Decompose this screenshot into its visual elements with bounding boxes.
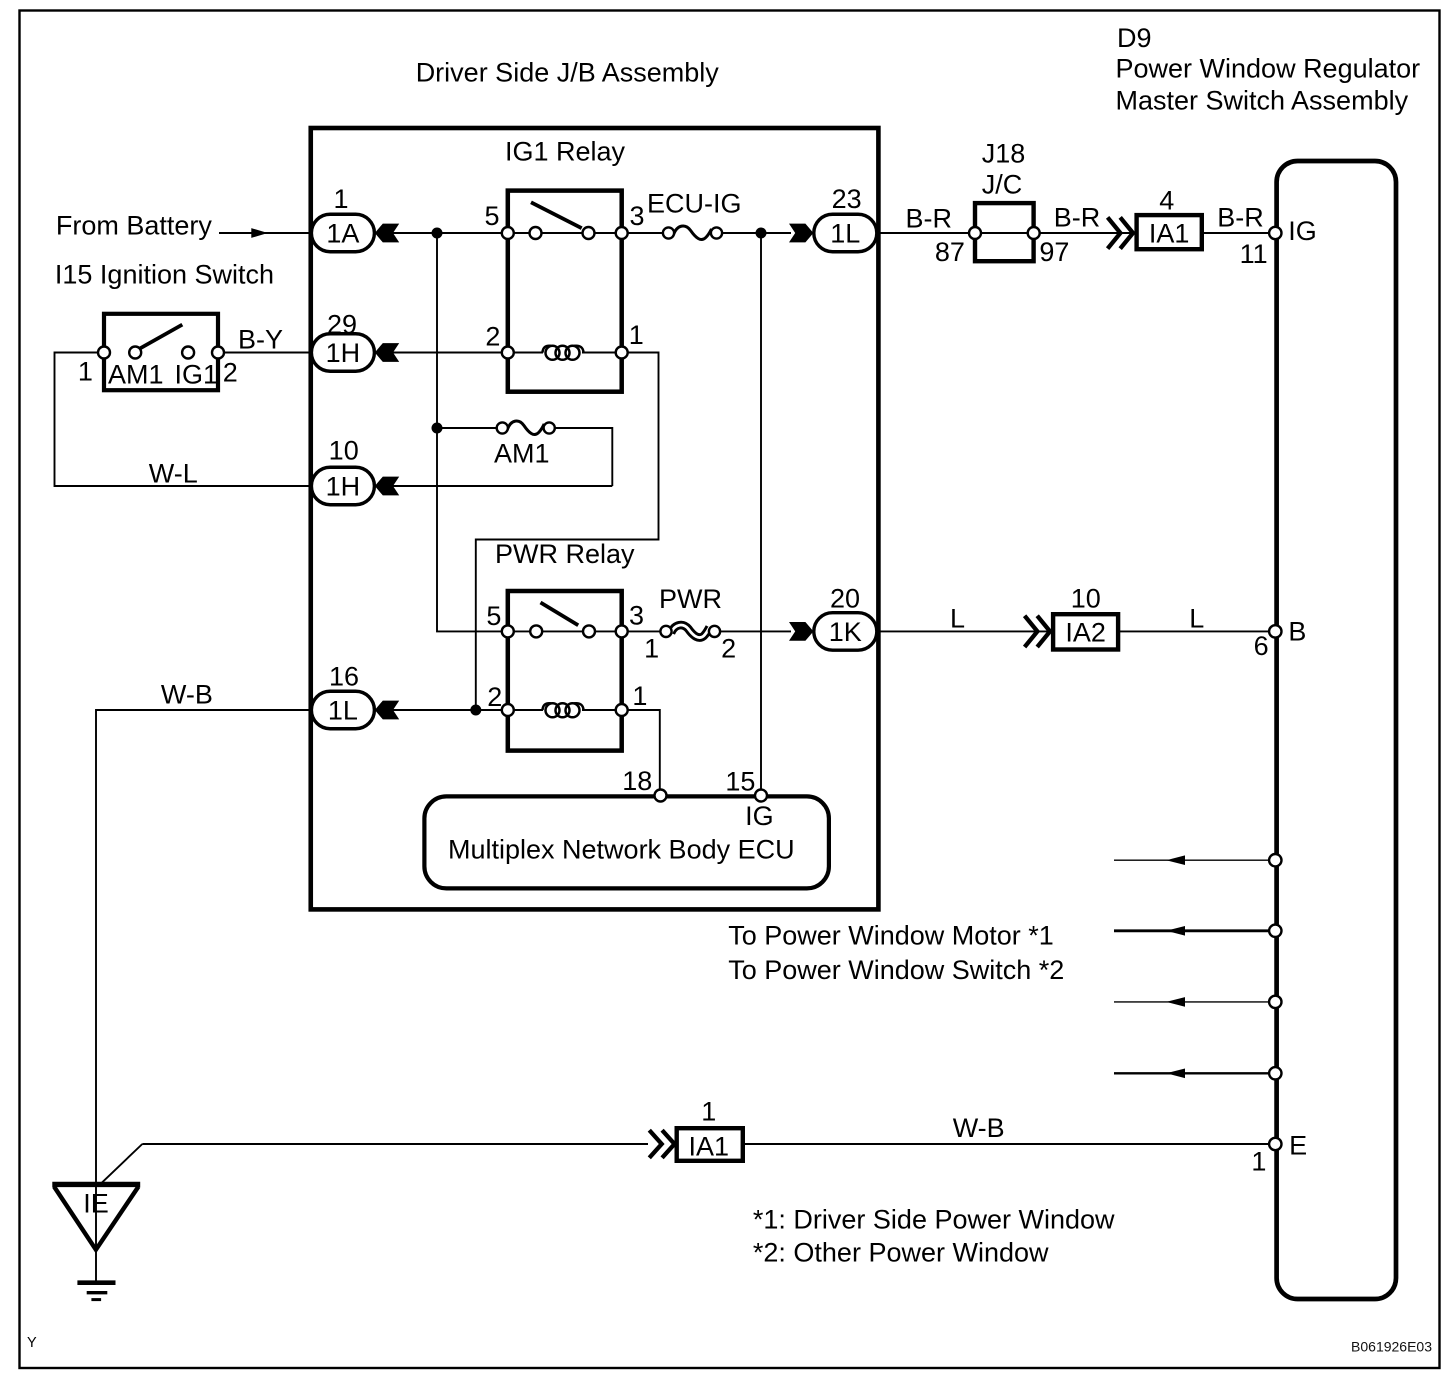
- pin label E master switch: [1289, 1131, 1307, 1161]
- svg-text:23: 23: [832, 184, 862, 214]
- svg-text:4: 4: [1159, 185, 1174, 215]
- pin label 1 PWR coil: [632, 681, 647, 711]
- wire: power window output stub 1 with arrow: [1114, 855, 1269, 865]
- pin circles: IG1 relay: [502, 227, 628, 359]
- wire: power window output stub 4 with arrow: [1114, 1069, 1269, 1079]
- pin label B master switch: [1288, 617, 1306, 647]
- net label IG at ECU: [745, 801, 774, 831]
- svg-text:1: 1: [1251, 1147, 1266, 1177]
- value label ECU-IG: [647, 189, 742, 219]
- switch blade: ignition switch contact: [139, 325, 182, 349]
- svg-text:15: 15: [725, 767, 755, 797]
- pin label 3 IG1 relay: [630, 201, 645, 231]
- wire: ECU-IG junction down to ECU pin 15: [760, 233, 762, 795]
- pin circles: ignition switch: [98, 347, 224, 359]
- wire: ECU-IG fuse output to 1L connector: [717, 232, 792, 234]
- relay U1: IG1 Relay box: [508, 191, 622, 392]
- svg-text:6: 6: [1254, 631, 1269, 661]
- connector 1A pin 1: [311, 184, 399, 252]
- label B-Y: [238, 325, 283, 355]
- wire: B-R from 1L to J18 junction connector: [876, 232, 975, 234]
- svg-text:PWR Relay: PWR Relay: [495, 539, 635, 569]
- value label AM1 fuse: [494, 439, 550, 469]
- svg-text:1: 1: [644, 634, 659, 664]
- svg-text:IG1 Relay: IG1 Relay: [505, 137, 626, 167]
- connector chevron before IA1 top: [1108, 217, 1133, 248]
- connector IA1 (pin 4) box: [1137, 215, 1202, 249]
- svg-text:1: 1: [629, 320, 644, 350]
- svg-text:IG: IG: [1288, 216, 1317, 246]
- svg-text:18: 18: [622, 766, 652, 796]
- title: Driver Side J/B Assembly: [416, 58, 720, 88]
- svg-text:I15 Ignition Switch: I15 Ignition Switch: [55, 260, 274, 290]
- connector chevron before IA1 lower: [649, 1130, 674, 1158]
- svg-text:16: 16: [329, 661, 359, 691]
- pin label 18 ECU: [622, 766, 652, 796]
- label: I15 Ignition Switch: [55, 260, 274, 290]
- wire: B-R from IA1 to IG pin 11: [1202, 232, 1275, 234]
- pin label 3 PWR relay: [629, 601, 644, 631]
- svg-text:W-B: W-B: [953, 1113, 1005, 1143]
- switch blade: PWR relay contact: [541, 603, 579, 626]
- label W-B lower: [953, 1113, 1005, 1143]
- svg-text:Y: Y: [27, 1335, 37, 1351]
- pin circles: ECU pins 18 and 15: [655, 790, 768, 802]
- wire: W-B ground row from IE to IA1 and E pin 1: [100, 1144, 1275, 1184]
- svg-text:J18: J18: [982, 138, 1026, 168]
- svg-text:W-L: W-L: [149, 459, 198, 489]
- svg-text:1: 1: [78, 357, 93, 387]
- svg-text:1K: 1K: [829, 617, 862, 647]
- pin label 5 IG1 relay: [484, 201, 499, 231]
- junction dot: PWR coil / 1L(16) split: [470, 705, 481, 716]
- connector IA2 (pin 10) box: [1053, 614, 1118, 649]
- pin label 10 IA2: [1071, 583, 1101, 613]
- pin label 1 PWR fuse: [644, 634, 659, 664]
- svg-text:IA2: IA2: [1065, 618, 1106, 648]
- pin label 2 IG1 coil: [485, 321, 500, 351]
- label B-R segment 2: [1054, 203, 1101, 233]
- svg-text:IG1: IG1: [175, 360, 219, 390]
- svg-text:2: 2: [485, 321, 500, 351]
- svg-text:5: 5: [486, 601, 501, 631]
- svg-text:B-Y: B-Y: [238, 325, 283, 355]
- footnotes *1 *2: [753, 1204, 1115, 1267]
- drawing number B061926E03: [1351, 1339, 1432, 1355]
- connector 1H pin 29: [311, 310, 399, 372]
- svg-text:1H: 1H: [326, 338, 361, 368]
- junction dot: ECU-IG output split to pin 15: [756, 228, 767, 239]
- wire: 1H to IG1 relay coil pin 2: [375, 352, 622, 354]
- fuse ECU-IG: [663, 226, 722, 240]
- pin label 11: [1240, 239, 1268, 269]
- pin label 1 IA1 lower: [701, 1096, 716, 1126]
- svg-text:W-B: W-B: [161, 680, 213, 710]
- fuse PWR: [660, 625, 720, 637]
- svg-text:IG: IG: [745, 801, 774, 831]
- svg-text:*1: Driver Side Power Window: *1: Driver Side Power Window: [753, 1204, 1115, 1234]
- wire: W-B ground wire from 1L(16) down left side: [96, 710, 312, 1281]
- junction dot: AM1 fuse tap: [432, 423, 443, 434]
- value label AM1 ignition: [108, 360, 164, 390]
- svg-text:B: B: [1288, 617, 1306, 647]
- svg-text:To Power Window Motor *1: To Power Window Motor *1: [728, 920, 1054, 950]
- svg-text:B-R: B-R: [1217, 203, 1264, 233]
- wire: From Battery feed into 1A: [219, 232, 312, 234]
- switch S1: I15 Ignition Switch box: [104, 314, 218, 390]
- svg-text:10: 10: [329, 436, 359, 466]
- svg-text:10: 10: [1071, 583, 1101, 613]
- wire: L from 1K to IA2: [876, 630, 1053, 632]
- svg-text:1L: 1L: [830, 219, 860, 249]
- label W-L: [149, 459, 198, 489]
- svg-text:B-R: B-R: [1054, 203, 1101, 233]
- pin label 1 ignition: [78, 357, 93, 387]
- label: From Battery: [56, 211, 213, 241]
- svg-text:From Battery: From Battery: [56, 211, 213, 241]
- coil: IG1 relay winding: [543, 346, 584, 360]
- svg-text:IA1: IA1: [1149, 219, 1190, 249]
- connector 1K pin 20: [789, 583, 877, 650]
- wire: PWR fuse output to 1K: [715, 630, 792, 632]
- svg-text:29: 29: [327, 310, 357, 340]
- svg-text:Driver Side J/B Assembly: Driver Side J/B Assembly: [416, 58, 720, 88]
- connector chevron before IA2: [1025, 616, 1050, 647]
- svg-text:1A: 1A: [326, 219, 359, 249]
- svg-text:1: 1: [701, 1096, 716, 1126]
- junction dot: battery feed split: [432, 228, 443, 239]
- label PWR Relay: [495, 539, 635, 569]
- coil: PWR relay winding: [543, 703, 584, 717]
- pin label 2 ignition: [223, 358, 238, 388]
- label J18 J/C: [982, 138, 1026, 199]
- connector 1H pin 10: [311, 436, 399, 505]
- pin label 6: [1254, 631, 1269, 661]
- wire: power window output stub 3 with arrow: [1114, 997, 1269, 1007]
- svg-text:2: 2: [487, 682, 502, 712]
- pin label 15 ECU: [725, 767, 755, 797]
- wire: PWR relay coil pin 1 to ECU pin 18: [622, 710, 660, 795]
- label: IG1 Relay: [505, 137, 626, 167]
- wire: through J18 J/C pins 87-97: [975, 232, 1034, 234]
- svg-text:97: 97: [1039, 237, 1069, 267]
- svg-text:L: L: [950, 604, 965, 634]
- pin label 2 PWR coil: [487, 682, 502, 712]
- svg-text:L: L: [1189, 604, 1204, 634]
- svg-text:2: 2: [223, 358, 238, 388]
- svg-text:1L: 1L: [328, 696, 358, 726]
- wire: B-Y ignition switch pin 2 to 1H: [218, 352, 312, 354]
- arrowhead: From Battery direction arrow: [251, 228, 267, 238]
- svg-text:20: 20: [830, 583, 860, 613]
- label L segment 1: [950, 604, 965, 634]
- pin circles: J18 J/C pins 87 and 97: [969, 227, 1040, 239]
- connector 1L pin 16: [311, 661, 399, 728]
- ground IE triangle and earth symbol: [52, 1184, 140, 1299]
- pin label 4 IA1: [1159, 185, 1174, 215]
- svg-text:3: 3: [630, 201, 645, 231]
- svg-text:AM1: AM1: [494, 439, 550, 469]
- svg-text:3: 3: [629, 601, 644, 631]
- wire: AM1 fuse branch from battery vertical: [375, 428, 612, 486]
- svg-text:PWR: PWR: [659, 584, 722, 614]
- wire: L from IA2 to B pin 6: [1118, 630, 1275, 632]
- page letter Y: [27, 1335, 37, 1351]
- value label IG1 ignition: [175, 360, 219, 390]
- svg-text:5: 5: [484, 201, 499, 231]
- pin label 1 IG1 coil: [629, 320, 644, 350]
- svg-text:87: 87: [935, 237, 965, 267]
- pin label IG master switch: [1288, 216, 1317, 246]
- pin circles: master switch pins IG B E and stubs: [1269, 227, 1281, 1150]
- pin label 1 below E: [1251, 1147, 1266, 1177]
- pin circles: PWR relay: [502, 625, 628, 716]
- fuse AM1: [497, 421, 555, 435]
- svg-text:B-R: B-R: [906, 204, 953, 234]
- switch blade: IG1 relay contact: [531, 202, 582, 228]
- wire: ignition switch pin 1 down to W-L row into 1H(10): [55, 353, 313, 487]
- label L segment 2: [1189, 604, 1204, 634]
- svg-text:B061926E03: B061926E03: [1351, 1339, 1432, 1355]
- label W-B upper: [161, 680, 213, 710]
- wire: J/B internal battery row through IG1 relay contacts: [375, 232, 669, 234]
- label B-R segment 3: [1217, 203, 1264, 233]
- wire: power window output stub 2 with arrow: [1114, 926, 1269, 936]
- wire: 1L(16) row to PWR relay coil pin 2: [375, 709, 622, 711]
- svg-text:D9: D9: [1117, 23, 1152, 53]
- junction block: Driver Side J/B Assembly outline: [311, 128, 879, 909]
- svg-text:2: 2: [721, 634, 736, 664]
- svg-text:1: 1: [333, 184, 348, 214]
- pin label 2 PWR fuse: [721, 634, 736, 664]
- junction connector J18 J/C box: [975, 203, 1034, 261]
- svg-text:Master Switch Assembly: Master Switch Assembly: [1116, 86, 1409, 116]
- svg-text:IE: IE: [83, 1189, 109, 1219]
- svg-text:11: 11: [1240, 239, 1268, 269]
- svg-text:Multiplex Network Body ECU: Multiplex Network Body ECU: [448, 835, 795, 865]
- svg-text:To Power Window Switch *2: To Power Window Switch *2: [728, 955, 1064, 985]
- svg-text:1H: 1H: [326, 472, 361, 502]
- connector 1L pin 23: [789, 184, 877, 252]
- wire: B-R from J/C to IA1: [1034, 232, 1137, 234]
- pin label 97: [1039, 237, 1069, 267]
- value label PWR fuse: [659, 584, 722, 614]
- svg-text:IA1: IA1: [689, 1131, 730, 1161]
- pin label 5 PWR relay: [486, 601, 501, 631]
- wire: IG1 relay coil pin 1 loop down to PWR relay coil: [476, 353, 659, 711]
- svg-text:*2: Other Power Window: *2: Other Power Window: [753, 1237, 1049, 1267]
- connector IA1 (pin 1) box lower: [677, 1128, 743, 1161]
- svg-text:Power Window Regulator: Power Window Regulator: [1116, 54, 1421, 84]
- label: D9 Power Window Regulator Master Switch Assembly: [1116, 23, 1421, 116]
- svg-text:E: E: [1289, 1131, 1307, 1161]
- connector D9: Power Window Regulator Master Switch Assembly outline: [1277, 161, 1396, 1299]
- svg-text:J/C: J/C: [982, 170, 1023, 200]
- wire: battery vertical feed to PWR relay pin 5: [437, 233, 668, 631]
- note: To Power Window Motor/Switch: [728, 920, 1064, 985]
- svg-text:1: 1: [632, 681, 647, 711]
- label B-R segment 1: [906, 204, 953, 234]
- pin label 87: [935, 237, 965, 267]
- ECU: Multiplex Network Body ECU box: [424, 796, 829, 888]
- relay U2: PWR Relay box: [508, 591, 622, 751]
- svg-text:ECU-IG: ECU-IG: [647, 189, 742, 219]
- svg-text:AM1: AM1: [108, 360, 164, 390]
